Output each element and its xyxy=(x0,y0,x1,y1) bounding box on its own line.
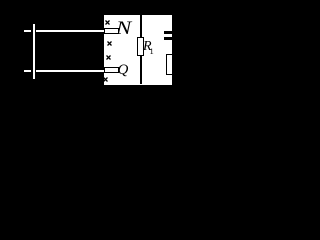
node Q xyxy=(118,63,129,78)
wire rail top left segment xyxy=(24,30,31,32)
resistor R1 value label xyxy=(143,40,152,54)
wire lead to node Q (hollow) xyxy=(104,67,119,73)
field mark B3 (x into page) xyxy=(106,55,111,60)
resistor body right branch xyxy=(166,54,173,75)
wire rail bottom right segment xyxy=(36,70,104,72)
wire lead to node N (hollow) xyxy=(104,28,119,34)
resistor R1 subscript xyxy=(150,47,154,56)
wire rail top right segment xyxy=(36,30,104,32)
field mark B4 (x into page) xyxy=(103,77,108,82)
field mark B2 (x into page) xyxy=(107,41,112,46)
node N xyxy=(116,19,131,38)
sliding rod conductor xyxy=(33,24,35,79)
resistor R1 body xyxy=(137,37,144,56)
field mark B1 (x into page) xyxy=(105,20,110,25)
capacitor plate upper xyxy=(164,31,172,34)
wire loop left branch xyxy=(140,15,142,84)
wire rail bottom left segment xyxy=(24,70,31,72)
capacitor plate lower xyxy=(164,37,172,40)
field region window (white panel) xyxy=(104,15,172,85)
